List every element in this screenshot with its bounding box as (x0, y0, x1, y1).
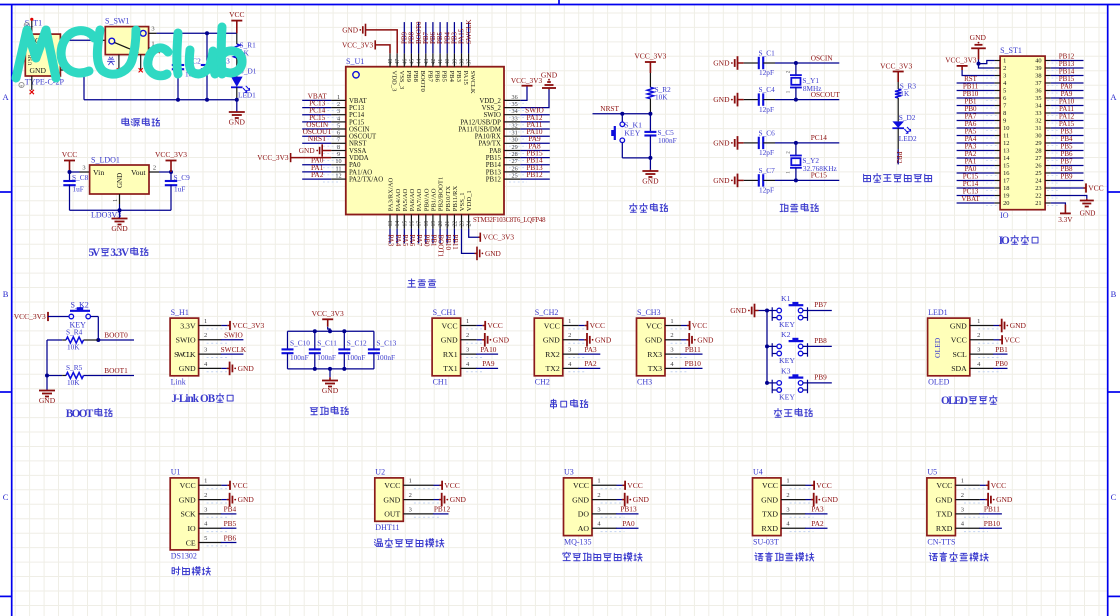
pin 28 of S_ST1 (1045, 150, 1051, 152)
pin 24 of S_ST1 (1045, 180, 1051, 182)
pin 3 PC14 of S_U1 (331, 114, 346, 116)
svg-text:1: 1 (409, 478, 412, 485)
switch label 关 (107, 57, 114, 65)
svg-text:PB7: PB7 (426, 71, 433, 83)
connector U4 (753, 478, 782, 536)
connector S_H1 (170, 318, 199, 376)
wire / net PA10 (1051, 105, 1084, 107)
wire / net PA2 (805, 527, 828, 529)
svg-text:S_SW1: S_SW1 (105, 17, 129, 26)
svg-text:TX1: TX1 (443, 364, 457, 373)
svg-text:IO: IO (1000, 211, 1009, 220)
svg-text:GND: GND (383, 495, 400, 504)
svg-text:38: 38 (460, 59, 466, 65)
pin 1 of S_SW1 unused (149, 47, 157, 49)
pin 21 of S_ST1 (1045, 202, 1051, 204)
svg-text:S_D2: S_D2 (899, 113, 916, 122)
wire (46, 340, 48, 376)
wire / net PB11 (681, 353, 703, 355)
wire / net PB9 (808, 382, 832, 384)
svg-text:PA5/AO: PA5/AO (402, 188, 409, 211)
svg-text:STM32F103C8T6_LQFP48: STM32F103C8T6_LQFP48 (473, 217, 546, 224)
wire / net PB13 (1051, 67, 1084, 69)
wire / net PB5 (439, 22, 441, 53)
svg-text:SWCLK: SWCLK (469, 71, 476, 94)
wire / net PA0 (957, 172, 995, 174)
svg-text:12: 12 (1003, 140, 1009, 147)
svg-text:24: 24 (1035, 178, 1042, 185)
svg-text:1K: 1K (900, 89, 910, 98)
svg-text:1: 1 (597, 478, 600, 485)
wire (617, 499, 623, 501)
svg-text:PA10/RX: PA10/RX (475, 134, 501, 141)
svg-text:KEY: KEY (779, 320, 795, 329)
svg-text:A: A (3, 92, 10, 102)
power VCC_3V3 (47, 312, 49, 321)
svg-text:GND: GND (713, 139, 730, 148)
svg-text:S_C4: S_C4 (759, 85, 776, 94)
wire / net PB15 (1051, 82, 1084, 84)
svg-text:PA1/AO: PA1/AO (349, 169, 372, 176)
svg-text:2: 2 (1003, 65, 1006, 72)
svg-text:PB12: PB12 (434, 505, 451, 514)
wire / net PC15 (302, 121, 331, 123)
svg-text:46: 46 (402, 59, 408, 65)
pin 43 PB7 of S_U1 (425, 53, 427, 66)
svg-text:37: 37 (1035, 80, 1042, 87)
power VCC (689, 321, 691, 330)
svg-text:PA2/TX/AO: PA2/TX/AO (349, 177, 383, 184)
wire / net PA12 (1051, 120, 1084, 122)
svg-text:GND: GND (342, 25, 358, 34)
pin 19 PB1/AO of S_U1 (432, 215, 434, 229)
svg-text:VCC: VCC (692, 321, 707, 330)
wire / net PA10 (476, 353, 498, 355)
svg-text:RX1: RX1 (443, 350, 458, 359)
wire / net PC15 (775, 179, 839, 181)
svg-text:PA7: PA7 (415, 235, 423, 247)
svg-text:30: 30 (512, 137, 518, 144)
wire (622, 157, 650, 159)
wire / net PA4 (957, 142, 995, 144)
pin 31 PA10/RX of S_U1 (504, 135, 520, 137)
svg-text:PB11: PB11 (451, 235, 459, 251)
pin 25 PB12 of S_U1 (504, 178, 520, 180)
wire / net PB10 (979, 527, 1002, 529)
svg-text:GND: GND (543, 336, 560, 345)
svg-text:GND: GND (996, 495, 1013, 504)
pin 21 PB10/TX of S_U1 (446, 215, 448, 229)
svg-text:CH1: CH1 (433, 378, 448, 387)
wire / net PB11 (957, 90, 995, 92)
svg-text:3.3V: 3.3V (110, 247, 129, 259)
svg-text:PB13: PB13 (620, 505, 637, 514)
svg-text:PA0: PA0 (622, 519, 635, 528)
pin 35 of S_ST1 (1045, 97, 1051, 99)
ground (229, 362, 231, 376)
svg-text:1: 1 (204, 478, 207, 485)
wire / net PC14 (302, 114, 331, 116)
svg-text:S_C1: S_C1 (759, 49, 776, 58)
pin 20 of S_ST1 (994, 202, 1000, 204)
caption reset circuit (630, 204, 637, 213)
svg-text:OLED: OLED (941, 395, 968, 407)
svg-text:GND: GND (111, 224, 128, 233)
svg-text:RX3: RX3 (647, 350, 662, 359)
svg-text:S_CH3: S_CH3 (637, 308, 661, 317)
svg-text:SWCLK: SWCLK (221, 345, 247, 354)
svg-text:GND: GND (645, 336, 662, 345)
svg-text:6: 6 (1003, 95, 1006, 102)
connector S_CH2 (534, 318, 563, 376)
wire / net PA6 (410, 229, 412, 244)
pin 36 VDD_2 of S_U1 (504, 99, 520, 101)
svg-text:34: 34 (1035, 103, 1042, 110)
wire / net PB5 (1051, 150, 1084, 152)
svg-text:GND: GND (485, 249, 501, 258)
svg-text:PB15: PB15 (486, 155, 502, 162)
svg-text:VCC: VCC (232, 481, 247, 490)
wire / net PA2 (302, 178, 331, 180)
svg-text:VSS_3: VSS_3 (398, 71, 405, 90)
svg-text:PB13: PB13 (486, 169, 502, 176)
svg-text:CH2: CH2 (535, 378, 550, 387)
svg-text:SDA: SDA (951, 364, 967, 373)
svg-text:100nF: 100nF (658, 136, 677, 145)
svg-text:OSCOUT: OSCOUT (349, 134, 377, 141)
svg-text:32: 32 (1035, 118, 1041, 125)
wire / net PA3 (957, 150, 995, 152)
svg-text:PA3: PA3 (584, 345, 597, 354)
svg-text:GND: GND (450, 495, 467, 504)
svg-text:3: 3 (670, 347, 673, 354)
svg-text:SWIO: SWIO (224, 331, 243, 340)
svg-text:32: 32 (512, 122, 518, 129)
svg-text:GND: GND (970, 33, 987, 42)
pin 1 of S_ST1 (994, 60, 1000, 62)
pin 23 of S_ST1 (1045, 187, 1051, 189)
wire / net PA9 (520, 142, 550, 144)
svg-text:24: 24 (467, 221, 473, 227)
wire / net PB9 (403, 22, 405, 53)
svg-text:S_C11: S_C11 (317, 339, 337, 348)
ground (484, 333, 486, 347)
svg-text:PB12: PB12 (486, 177, 502, 184)
svg-text:SWCLK: SWCLK (465, 20, 473, 45)
wire (980, 484, 986, 486)
svg-text:GND: GND (713, 59, 730, 68)
svg-text:11: 11 (1003, 133, 1009, 140)
svg-text:PC15: PC15 (349, 119, 365, 126)
svg-text:VCC: VCC (646, 321, 662, 330)
capacitor S_C12 100nF (343, 331, 345, 349)
svg-text:1: 1 (961, 478, 964, 485)
ground (737, 136, 739, 150)
svg-text:2: 2 (204, 492, 207, 499)
svg-text:PB8: PB8 (814, 336, 827, 345)
pin 13 of S_ST1 (994, 150, 1000, 152)
wire / net PA4 (396, 229, 398, 244)
wire / net PA5 (957, 135, 995, 137)
wire / net SWCLK (221, 353, 244, 355)
svg-text:18: 18 (1003, 185, 1009, 192)
pin 12 of S_ST1 (994, 142, 1000, 144)
svg-text:KEY: KEY (779, 356, 795, 365)
wire / net PB12 (1051, 60, 1084, 62)
wire / net NRST (593, 113, 651, 115)
svg-text:16: 16 (409, 221, 415, 227)
svg-text:15: 15 (402, 221, 408, 227)
svg-text:PB7: PB7 (814, 300, 827, 309)
wire / net PB3 (453, 22, 455, 53)
wire (980, 499, 986, 501)
pin 33 PA12/USB/DP of S_U1 (504, 121, 520, 123)
svg-text:31: 31 (1035, 125, 1041, 132)
svg-text:PA0: PA0 (349, 162, 361, 169)
wire (434, 484, 440, 486)
svg-text:10K: 10K (67, 343, 80, 352)
pin 25 of S_ST1 (1045, 172, 1051, 174)
wire / net RST (957, 82, 995, 84)
svg-text:43: 43 (424, 59, 430, 65)
pin 34 SWIO of S_U1 (504, 114, 520, 116)
pin 32 PA11/USB/DM of S_U1 (504, 128, 520, 130)
wire (755, 310, 759, 312)
wire (48, 316, 69, 318)
pin 2 Vout (149, 171, 159, 173)
pin 15 of S_ST1 (994, 165, 1000, 167)
caption voice recognition module (755, 553, 763, 561)
svg-text:GND: GND (229, 118, 246, 127)
wire / net PB2 (897, 149, 899, 164)
wire / net PA15 (461, 22, 463, 53)
ground (813, 493, 815, 507)
capacitor S_C2 100nF (177, 33, 179, 65)
svg-text:7: 7 (337, 137, 340, 144)
wire / net PB1 (957, 105, 995, 107)
power 3.3V at pin 21 (1051, 203, 1066, 205)
svg-text:PA9: PA9 (482, 359, 495, 368)
pin 7 of S_ST1 (994, 105, 1000, 107)
svg-text:30: 30 (1035, 133, 1041, 140)
wire BOOT0 rail (47, 339, 62, 341)
svg-text:PB11: PB11 (984, 505, 1000, 514)
pin 42 PB6 of S_U1 (432, 53, 434, 66)
svg-text:23: 23 (460, 221, 466, 227)
svg-text:GND: GND (935, 495, 952, 504)
wire / net PA11 (1051, 112, 1084, 114)
svg-text:19: 19 (431, 221, 437, 227)
svg-text:VCC: VCC (590, 321, 605, 330)
svg-text:40: 40 (445, 59, 451, 65)
wire (806, 499, 812, 501)
pin 18 of S_ST1 (994, 187, 1000, 189)
svg-text:GND: GND (713, 95, 730, 104)
svg-text:SWCLK: SWCLK (174, 350, 196, 359)
svg-text:S_CH2: S_CH2 (535, 308, 559, 317)
svg-text:22: 22 (1035, 193, 1041, 200)
pin 6 of S_ST1 (994, 97, 1000, 99)
regulator S_LDO1 LDO3V3 (80, 171, 90, 173)
svg-text:PC14: PC14 (811, 133, 828, 142)
svg-text:GND: GND (179, 364, 196, 373)
svg-text:PA2: PA2 (311, 170, 324, 179)
svg-text:10: 10 (1003, 125, 1009, 132)
svg-text:PA7/AO: PA7/AO (416, 188, 423, 211)
svg-text:S_C12: S_C12 (347, 339, 367, 348)
capacitor S_C13 100nF (373, 331, 375, 349)
svg-text:S_C10: S_C10 (290, 339, 310, 348)
svg-text:LED1: LED1 (238, 90, 256, 99)
ground (441, 493, 443, 507)
svg-text:SCK: SCK (181, 510, 197, 519)
pin 0 shield bottom of S_T1 (31, 76, 33, 90)
ground (737, 93, 739, 107)
power VCC (441, 481, 443, 490)
svg-text:PB11: PB11 (685, 345, 701, 354)
svg-text:OLED: OLED (933, 337, 942, 358)
svg-text:PA6: PA6 (408, 235, 416, 247)
svg-text:Vout: Vout (131, 168, 146, 177)
svg-text:3: 3 (977, 347, 980, 354)
key switch S_K1 (621, 114, 623, 122)
svg-text:1: 1 (670, 318, 673, 325)
svg-text:3: 3 (961, 506, 964, 513)
svg-text:C: C (1111, 492, 1117, 502)
svg-text:17: 17 (417, 221, 423, 227)
svg-text:3: 3 (1003, 73, 1006, 80)
svg-text:14: 14 (395, 221, 401, 227)
svg-text:NRST: NRST (600, 104, 619, 113)
wire / net PA1 (957, 165, 995, 167)
ground (39, 390, 55, 392)
wire / net PB9 (1051, 180, 1084, 182)
svg-text:SCL: SCL (952, 350, 967, 359)
ground (542, 87, 556, 89)
svg-text:PB3: PB3 (455, 71, 462, 83)
pin 36 of S_ST1 (1045, 90, 1051, 92)
wire (221, 367, 227, 369)
wire / net SWIO (221, 339, 244, 341)
MCUclub watermark (16, 27, 242, 78)
wire / net PA3 (578, 353, 600, 355)
wire / net PA0 (302, 164, 331, 166)
pin 14 PA4/AO of S_U1 (396, 215, 398, 229)
svg-text:GND: GND (116, 173, 124, 188)
svg-text:1: 1 (112, 199, 119, 202)
svg-text:CN-TTS: CN-TTS (927, 537, 955, 546)
svg-text:TXD: TXD (762, 510, 778, 519)
svg-text:PB0: PB0 (422, 235, 430, 248)
pin 22 of S_ST1 (1045, 195, 1051, 197)
pin 1 GND of S_LDO1 (119, 194, 121, 204)
svg-text:GND: GND (761, 495, 778, 504)
wire / net SWIO (520, 114, 550, 116)
svg-text:2: 2 (466, 332, 469, 339)
svg-text:VCC_3V3: VCC_3V3 (14, 312, 46, 321)
svg-text:2: 2 (961, 492, 964, 499)
svg-text:16: 16 (1003, 170, 1009, 177)
ground (586, 333, 588, 347)
wire top rail (157, 32, 237, 34)
svg-text:GND: GND (441, 336, 458, 345)
svg-text:TX2: TX2 (546, 364, 560, 373)
wire / net VBAT (302, 99, 331, 101)
wire (221, 484, 227, 486)
caption voice broadcast module (929, 553, 937, 561)
svg-text:PB11/RX: PB11/RX (452, 186, 459, 212)
svg-text:3: 3 (786, 506, 789, 513)
svg-text:PA4: PA4 (394, 235, 402, 247)
wire (329, 369, 331, 377)
svg-text:VCC: VCC (762, 481, 778, 490)
svg-text:PB2: PB2 (895, 152, 903, 165)
wire / net NRST (302, 142, 331, 144)
wire / net PB4 (221, 513, 237, 515)
svg-text:e: e (21, 83, 23, 88)
svg-text:GND: GND (1080, 209, 1096, 218)
svg-text:GND: GND (322, 386, 339, 395)
svg-text:1uF: 1uF (73, 185, 84, 194)
key switch K2 (767, 345, 772, 347)
svg-text:3: 3 (597, 506, 600, 513)
pin 9 VDDA of S_U1 (331, 157, 346, 159)
svg-text:BOOT1: BOOT1 (104, 366, 128, 375)
wire (477, 325, 483, 327)
wire VCC to switch (70, 39, 95, 41)
svg-text:DO: DO (578, 510, 590, 519)
svg-text:5: 5 (204, 535, 207, 542)
svg-text:K2: K2 (781, 330, 791, 339)
svg-text:12pF: 12pF (759, 186, 774, 195)
pin 1 VBAT of S_U1 (331, 99, 346, 101)
wire / net PA11 (520, 128, 550, 130)
svg-text:PC13: PC13 (349, 105, 365, 112)
svg-text:20: 20 (1003, 200, 1009, 207)
svg-text:Link: Link (171, 378, 186, 387)
pin 30 PA9/TX of S_U1 (504, 142, 520, 144)
pin 2 of S_ST1 (994, 67, 1000, 69)
wire / net PB12 (433, 513, 449, 515)
key switch K1 (767, 310, 772, 312)
svg-text:SWIO: SWIO (176, 336, 196, 345)
svg-text:Vin: Vin (93, 168, 104, 177)
svg-text:PA11/USB/DM: PA11/USB/DM (458, 126, 501, 133)
svg-text:VCC: VCC (816, 481, 831, 490)
svg-text:1: 1 (1003, 58, 1006, 65)
pin 23 VSS_1 of S_U1 (461, 215, 463, 229)
ground at VSS_1 (462, 229, 475, 254)
pin 8 VSSA of S_U1 (331, 150, 346, 152)
pin 47 VSS_3 of S_U1 (396, 53, 398, 66)
svg-text:S_CH1: S_CH1 (433, 308, 457, 317)
svg-text:1: 1 (568, 318, 571, 325)
pin 0 shield top of S_T1 (31, 21, 33, 35)
svg-text:PC14: PC14 (349, 112, 365, 119)
svg-text:27: 27 (1035, 155, 1042, 162)
pin 17 of S_ST1 (994, 180, 1000, 182)
svg-text:CE: CE (186, 538, 196, 547)
svg-text:TXD: TXD (936, 510, 952, 519)
svg-text:1: 1 (466, 318, 469, 325)
pin 13 PA3/RX/AO of S_U1 (389, 215, 391, 229)
svg-text:S_ST1: S_ST1 (1000, 46, 1022, 55)
svg-text:PB10/TX: PB10/TX (445, 186, 452, 212)
svg-text:VCC_3V3: VCC_3V3 (257, 153, 289, 162)
svg-text:GND: GND (950, 321, 967, 330)
ground (229, 111, 245, 113)
pin 10 PA0 of S_U1 (331, 164, 346, 166)
